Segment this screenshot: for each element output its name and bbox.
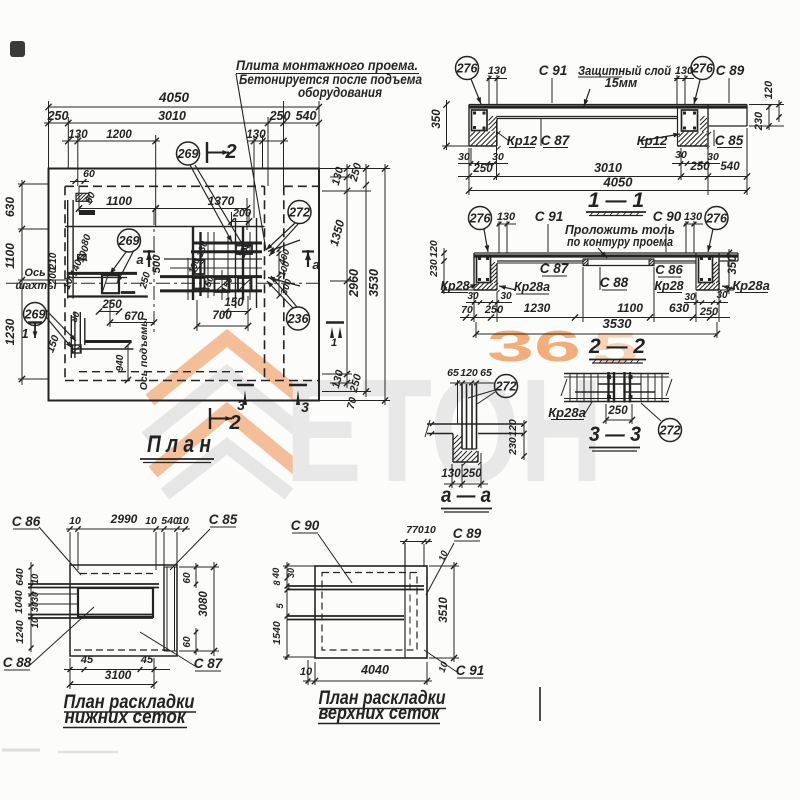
plan bottom-left thick bar: [85, 340, 132, 343]
svg-text:3080: 3080: [198, 591, 210, 617]
svg-text:Кр28а: Кр28а: [548, 405, 586, 420]
svg-text:250: 250: [269, 109, 291, 123]
section 1-1 right beam outline: [677, 107, 679, 146]
svg-text:1230: 1230: [3, 318, 17, 345]
svg-text:1370: 1370: [208, 194, 235, 208]
upper mesh thick band 1: [287, 585, 424, 587]
svg-text:250: 250: [607, 405, 628, 417]
svg-text:С 87: С 87: [194, 656, 224, 671]
plan left rebar verticals: [67, 200, 69, 299]
section 1 cut mark left: [28, 321, 42, 323]
svg-text:30: 30: [467, 291, 479, 302]
svg-text:120: 120: [460, 367, 478, 379]
stray vertical line right of titles: [539, 687, 541, 721]
svg-text:1230: 1230: [524, 301, 551, 315]
watermark chevron logo band 1 (orange): [150, 338, 304, 400]
extension lines to right chains: [319, 168, 390, 170]
plan left dimension chain 630 1100 1230: [21, 180, 23, 385]
lower mesh left dim chain: [30, 562, 32, 652]
section 1 cut mark right: [326, 321, 344, 323]
svg-text:10: 10: [177, 515, 189, 527]
position bubble 269 top: [177, 142, 200, 165]
upper mesh left dim chain: [286, 562, 288, 660]
plan central mesh thin horizontal: [164, 258, 262, 260]
svg-text:3: 3: [301, 399, 309, 415]
svg-text:5: 5: [275, 603, 286, 609]
plan left rebar top anchor bar: [79, 210, 95, 215]
svg-text:120: 120: [763, 80, 775, 99]
svg-text:1540: 1540: [271, 621, 283, 645]
lower mesh outer rectangle: [70, 565, 177, 656]
plan mesh bracket top (hatched): [236, 246, 252, 255]
lower mesh right strip C85: [163, 567, 165, 651]
svg-text:640: 640: [14, 568, 26, 586]
svg-text:3510: 3510: [438, 597, 450, 623]
svg-text:15мм: 15мм: [605, 76, 637, 90]
svg-text:230: 230: [753, 111, 765, 131]
svg-text:276: 276: [691, 61, 714, 75]
svg-text:С 86: С 86: [12, 514, 41, 529]
svg-text:30: 30: [500, 291, 512, 302]
position bubble 272 plan: [288, 201, 311, 224]
extension lines below 1-1: [468, 148, 470, 195]
svg-text:230: 230: [507, 437, 519, 456]
section 3 cut mark left: [237, 384, 254, 386]
svg-text:60: 60: [182, 572, 193, 584]
svg-text:350: 350: [431, 109, 443, 129]
section 1-1 slab top lines: [469, 104, 747, 106]
svg-text:60: 60: [182, 636, 193, 648]
svg-text:1040: 1040: [13, 590, 25, 614]
leaders from 272 plan: [266, 223, 295, 250]
watermark chevron logo band 4 (gray): [165, 446, 289, 494]
plan hook small bar right: [121, 291, 135, 294]
section 1-1 slab bottom between beams: [497, 116, 679, 118]
svg-text:940: 940: [115, 354, 126, 371]
leader lines from 269 top: [190, 165, 232, 242]
svg-text:40: 40: [271, 567, 282, 579]
svg-text:30: 30: [716, 290, 728, 301]
svg-text:272: 272: [288, 205, 310, 219]
section 2-2 right overhang: [719, 260, 738, 262]
svg-text:3010: 3010: [158, 109, 186, 123]
lower mesh left extensions: [28, 593, 78, 595]
leaders from 269 left: [46, 310, 76, 341]
section 2-2 left beam: [473, 253, 475, 290]
svg-text:269: 269: [118, 234, 140, 248]
plan mesh bracket left mid: [194, 260, 205, 274]
position bubble 269 mid-left: [118, 229, 141, 252]
upper mesh right dim 3510: [453, 562, 455, 662]
watermark chevron logo band 2 (gray): [146, 373, 308, 438]
lower mesh bottom dashed: [74, 649, 172, 651]
svg-text:130: 130: [684, 211, 703, 223]
plan right chain line B (250 2960 250): [365, 164, 367, 397]
plan central mesh vertical bars: [192, 227, 194, 301]
svg-text:верхних сеток: верхних сеток: [319, 703, 441, 724]
lower mesh right dim 3080: [213, 562, 215, 656]
section 1-1 left beam cage: [472, 110, 488, 131]
svg-text:Ось: Ось: [24, 267, 45, 279]
svg-text:10: 10: [30, 617, 41, 628]
plan bottom-left rebar verticals: [70, 315, 72, 358]
svg-text:2990: 2990: [110, 512, 138, 526]
svg-text:130: 130: [441, 468, 461, 480]
section 2-2 slab bottom right part: [654, 260, 696, 262]
svg-text:10: 10: [424, 524, 436, 536]
section a-a cut marker left: [148, 250, 150, 267]
svg-text:210: 210: [48, 252, 59, 270]
plan central mesh thin verticals: [213, 232, 215, 296]
svg-text:272: 272: [659, 423, 681, 437]
faint gray mark bottom left: [2, 749, 40, 752]
svg-text:60: 60: [83, 168, 95, 180]
section 3-3 break marks: [561, 379, 567, 396]
section 2-2 right beam hatch: [697, 283, 722, 293]
upper mesh inner dashed rectangle: [322, 573, 417, 651]
svg-text:1100: 1100: [3, 243, 17, 269]
svg-text:1100: 1100: [617, 301, 643, 315]
plan right chain line A (130 1350 130): [346, 164, 348, 388]
svg-text:250: 250: [689, 161, 710, 173]
svg-text:2: 2: [224, 141, 236, 163]
plan inner dashed line bottom: [79, 371, 245, 373]
svg-text:С 91: С 91: [535, 209, 564, 224]
svg-text:Кр12: Кр12: [507, 133, 538, 148]
svg-text:2960: 2960: [347, 269, 361, 298]
svg-text:65: 65: [447, 367, 459, 379]
svg-text:30: 30: [492, 151, 504, 163]
svg-text:a: a: [312, 257, 319, 272]
plan opening dashed outline left part: [65, 185, 265, 187]
svg-text:269: 269: [177, 147, 199, 161]
svg-text:770: 770: [406, 524, 424, 536]
svg-text:700: 700: [212, 310, 232, 322]
svg-text:10: 10: [300, 666, 313, 678]
svg-text:Плита монтажного проема.: Плита монтажного проема.: [236, 58, 418, 73]
svg-text:30: 30: [458, 151, 470, 163]
svg-text:С 86: С 86: [655, 262, 683, 277]
bubble 276 right of section 1-1: [691, 57, 714, 80]
svg-text:1200: 1200: [106, 129, 132, 141]
plan mesh bracket center low: [215, 279, 230, 292]
section 2-2 right beam: [695, 253, 697, 290]
svg-text:3010: 3010: [594, 161, 622, 175]
plan opening dashed outline right part: [284, 185, 319, 187]
plan vertical axis line (dash-dot): [153, 211, 155, 334]
svg-text:65: 65: [480, 367, 492, 379]
section 2-2 left beam hatch: [475, 283, 500, 293]
svg-text:250: 250: [484, 304, 504, 316]
svg-text:a: a: [136, 252, 143, 267]
svg-text:540: 540: [296, 109, 317, 123]
lower mesh C88 window: [78, 588, 153, 617]
plan hook detail square 250: [102, 275, 119, 293]
svg-text:4050: 4050: [158, 90, 190, 105]
svg-text:П л а н: П л а н: [147, 431, 211, 458]
plan mesh zone top edge: [65, 226, 265, 228]
plan outer slab outline: [49, 169, 320, 401]
svg-text:276: 276: [705, 211, 728, 225]
svg-text:С 90: С 90: [291, 518, 320, 533]
svg-text:276: 276: [469, 211, 492, 225]
extension lines to left chain: [18, 183, 49, 185]
leader from annotation to plan opening: [236, 74, 266, 250]
lower mesh top band dashed line: [80, 573, 157, 575]
section 2-2 right beam cage: [699, 256, 713, 283]
svg-text:С 85: С 85: [209, 512, 238, 527]
svg-text:1100: 1100: [106, 194, 132, 208]
svg-text:2 — 2: 2 — 2: [588, 335, 645, 358]
plan right dim extension arrows: [268, 240, 300, 252]
svg-text:нижних сеток: нижних сеток: [65, 707, 187, 728]
upper mesh C89 strip: [404, 543, 406, 658]
section 2-2 slab bottom left part: [497, 260, 583, 262]
svg-text:10: 10: [30, 573, 41, 584]
section 3 cut mark right: [289, 384, 307, 386]
section 1-1 left beam outline: [468, 105, 470, 147]
plan mesh bracket left low: [194, 278, 205, 289]
section 2 cut mark bottom: [209, 408, 211, 429]
svg-text:250: 250: [461, 468, 482, 480]
svg-text:236: 236: [287, 312, 310, 326]
svg-text:30: 30: [30, 592, 40, 602]
section a-a dowel bars: [461, 384, 463, 449]
svg-text:С 91: С 91: [456, 663, 485, 678]
plan bottom-left small square: [73, 345, 82, 353]
plan right chain line C (3530): [384, 164, 386, 405]
extension lines from top dims to plan: [48, 101, 50, 169]
position bubble 269 left edge: [24, 303, 47, 326]
section 2-2 left beam cage: [477, 256, 491, 283]
position bubble 236 plan: [287, 307, 310, 330]
plan left rebar thin bar: [67, 277, 127, 279]
svg-text:3530: 3530: [367, 269, 381, 297]
section 1-1 left beam hatch below cage: [470, 132, 501, 150]
svg-text:4050: 4050: [603, 175, 634, 190]
section 1-1 right beam hatch: [679, 132, 710, 149]
svg-text:1: 1: [331, 337, 337, 349]
svg-text:шахты: шахты: [15, 280, 57, 292]
watermark chevron logo band 3 (orange): [153, 411, 301, 472]
svg-text:500: 500: [151, 254, 163, 273]
bubble 272 a-a: [495, 375, 518, 398]
svg-text:269: 269: [24, 307, 46, 321]
svg-text:3: 3: [237, 397, 245, 413]
upper mesh thick band 2: [287, 615, 404, 617]
svg-text:272: 272: [495, 379, 517, 393]
section a-a cut marker right: [307, 250, 309, 267]
svg-text:150: 150: [224, 297, 244, 309]
section 2 cut mark top: [206, 142, 208, 163]
svg-text:С 87: С 87: [541, 133, 571, 148]
section 1-1 right overhang bottom: [708, 125, 747, 127]
upper mesh left extensions: [283, 565, 315, 567]
plan bottom-left thin bar: [71, 348, 133, 350]
svg-text:3 — 3: 3 — 3: [589, 423, 641, 446]
bubble 276 left of section 1-1: [456, 57, 479, 80]
section a-a slab lines: [427, 423, 523, 425]
svg-text:130: 130: [68, 129, 88, 141]
lower mesh thick band 2: [28, 614, 153, 616]
dark scan mark top-left corner: [10, 41, 25, 57]
section a-a slab end breaks: [425, 420, 430, 437]
section 3-3 mesh vertical wires: [569, 374, 571, 402]
plan bottom thick bar under square: [68, 295, 148, 297]
svg-text:С 88: С 88: [3, 655, 32, 670]
bubble 276 left 2-2: [469, 207, 492, 230]
svg-text:250: 250: [699, 306, 719, 318]
svg-text:Кр28а: Кр28а: [514, 280, 550, 294]
svg-text:10: 10: [145, 515, 157, 527]
svg-text:С 89: С 89: [453, 526, 482, 541]
svg-text:36: 36: [487, 322, 581, 371]
section 2-2 slab top lines: [474, 252, 738, 254]
svg-text:30: 30: [286, 568, 296, 578]
leaders from 236 plan: [267, 281, 293, 308]
plan mesh bracket right low: [238, 278, 252, 291]
leader lines from 269 mid: [110, 252, 126, 274]
svg-text:С 88: С 88: [600, 275, 629, 290]
lower mesh dims 60 right: [195, 563, 197, 588]
svg-text:С 87: С 87: [540, 261, 570, 276]
section a-a hatched drop beam: [452, 434, 454, 463]
svg-text:120: 120: [428, 240, 440, 258]
svg-text:Ось подъемы: Ось подъемы: [138, 318, 150, 391]
svg-text:30: 30: [30, 602, 40, 612]
svg-text:120: 120: [507, 419, 519, 437]
dimension 940 rotated: [127, 345, 129, 380]
svg-text:3100: 3100: [105, 668, 132, 682]
svg-text:а — а: а — а: [441, 484, 491, 507]
svg-text:630: 630: [3, 197, 17, 217]
svg-text:Кр28а: Кр28а: [732, 278, 770, 293]
lower mesh thick band 1: [28, 583, 159, 585]
section 1-1 left beam hatch right band: [489, 116, 501, 135]
svg-text:250: 250: [101, 299, 122, 311]
svg-text:Кр28: Кр28: [654, 279, 683, 293]
svg-text:1240: 1240: [14, 620, 26, 644]
plan central mesh thick horizontal bars: [193, 242, 262, 245]
svg-text:С 90: С 90: [653, 209, 682, 224]
section 3-3 center block: [607, 372, 609, 403]
plan left rebar thick bar: [67, 272, 137, 275]
bubble 272 3-3: [659, 419, 682, 442]
small hatched square top-left: [76, 193, 89, 201]
svg-text:Кр28: Кр28: [440, 279, 469, 293]
svg-text:10: 10: [69, 515, 81, 527]
section 3-3 mesh rails: [564, 373, 669, 375]
svg-text:276: 276: [456, 61, 479, 75]
svg-text:2: 2: [228, 412, 240, 434]
svg-text:70: 70: [461, 304, 473, 316]
svg-text:С 89: С 89: [716, 63, 745, 78]
svg-text:С 85: С 85: [715, 133, 744, 148]
svg-text:С 91: С 91: [539, 63, 568, 78]
svg-text:4040: 4040: [360, 663, 389, 677]
svg-text:3530: 3530: [603, 316, 633, 331]
plan right small dim chain 400 100 300: [278, 249, 280, 296]
extension lines below 2-2: [473, 292, 475, 322]
svg-text:540: 540: [720, 161, 740, 173]
svg-text:45: 45: [80, 654, 94, 666]
svg-text:250: 250: [472, 163, 493, 175]
plan left rebar small hatched square: [78, 255, 87, 261]
svg-text:230: 230: [428, 259, 440, 278]
section 3-3 mid horizontal bars: [598, 383, 641, 385]
bubble 276 right 2-2: [705, 207, 728, 230]
svg-text:по контуру проема: по контуру проема: [567, 235, 673, 249]
svg-text:45: 45: [140, 654, 154, 666]
section 2-2 middle insert slab C88: [583, 258, 654, 260]
svg-text:130: 130: [497, 211, 516, 223]
svg-text:8: 8: [272, 580, 282, 585]
svg-text:оборудования: оборудования: [298, 85, 382, 100]
svg-text:630: 630: [669, 301, 689, 315]
section 1-1 right beam cage: [682, 110, 698, 131]
plan horizontal axis line Os shahty (dash-dot): [6, 282, 319, 284]
upper mesh outer rectangle: [315, 566, 427, 658]
svg-text:1 — 1: 1 — 1: [588, 189, 644, 212]
